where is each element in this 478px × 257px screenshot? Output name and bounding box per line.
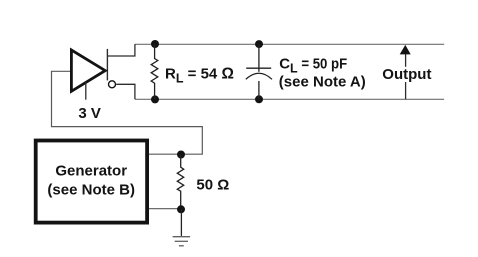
resistor 50 ohm (177, 155, 183, 210)
svg-text:RL = 54 Ω: RL = 54 Ω (165, 66, 234, 86)
wire generator bottom stub to node (149, 208, 181, 210)
svg-text:CL = 50 pF: CL = 50 pF (279, 55, 347, 75)
wire 3V supply stem (85, 83, 87, 100)
wire bottom rail (135, 98, 444, 100)
capacitor CL (246, 44, 272, 99)
wire bubble output to bottom rail (116, 84, 135, 99)
wire to ground (180, 209, 182, 236)
generator box (36, 141, 147, 223)
output arrow line (405, 54, 407, 100)
ground (173, 237, 191, 246)
svg-text:Generator: Generator (55, 163, 127, 180)
wire top output horizontal (107, 44, 134, 56)
node junction dot 50 ohm bottom (177, 205, 185, 213)
svg-text:Output: Output (382, 66, 431, 83)
svg-text:50 Ω: 50 Ω (196, 176, 229, 193)
resistor RL (151, 44, 158, 99)
output arrowhead (400, 45, 411, 55)
inverting output bubble (109, 81, 116, 88)
svg-text:(see Note B): (see Note B) (47, 181, 135, 198)
svg-text:(see Note A): (see Note A) (279, 74, 366, 91)
wire buffer top output to top rail (106, 49, 108, 81)
node junction dot CL top (255, 40, 263, 48)
svg-text:3 V: 3 V (78, 105, 101, 122)
node junction dot CL bottom (255, 95, 263, 103)
wire top rail (135, 43, 444, 45)
op-amp buffer U1 (driver triangle) (71, 50, 105, 91)
node junction dot RL top (151, 40, 159, 48)
label Output (381, 66, 433, 83)
wire input loop from generator up to buffer input (52, 71, 203, 154)
node junction dot RL bottom (151, 95, 159, 103)
node junction dot 50 ohm top (177, 151, 185, 159)
